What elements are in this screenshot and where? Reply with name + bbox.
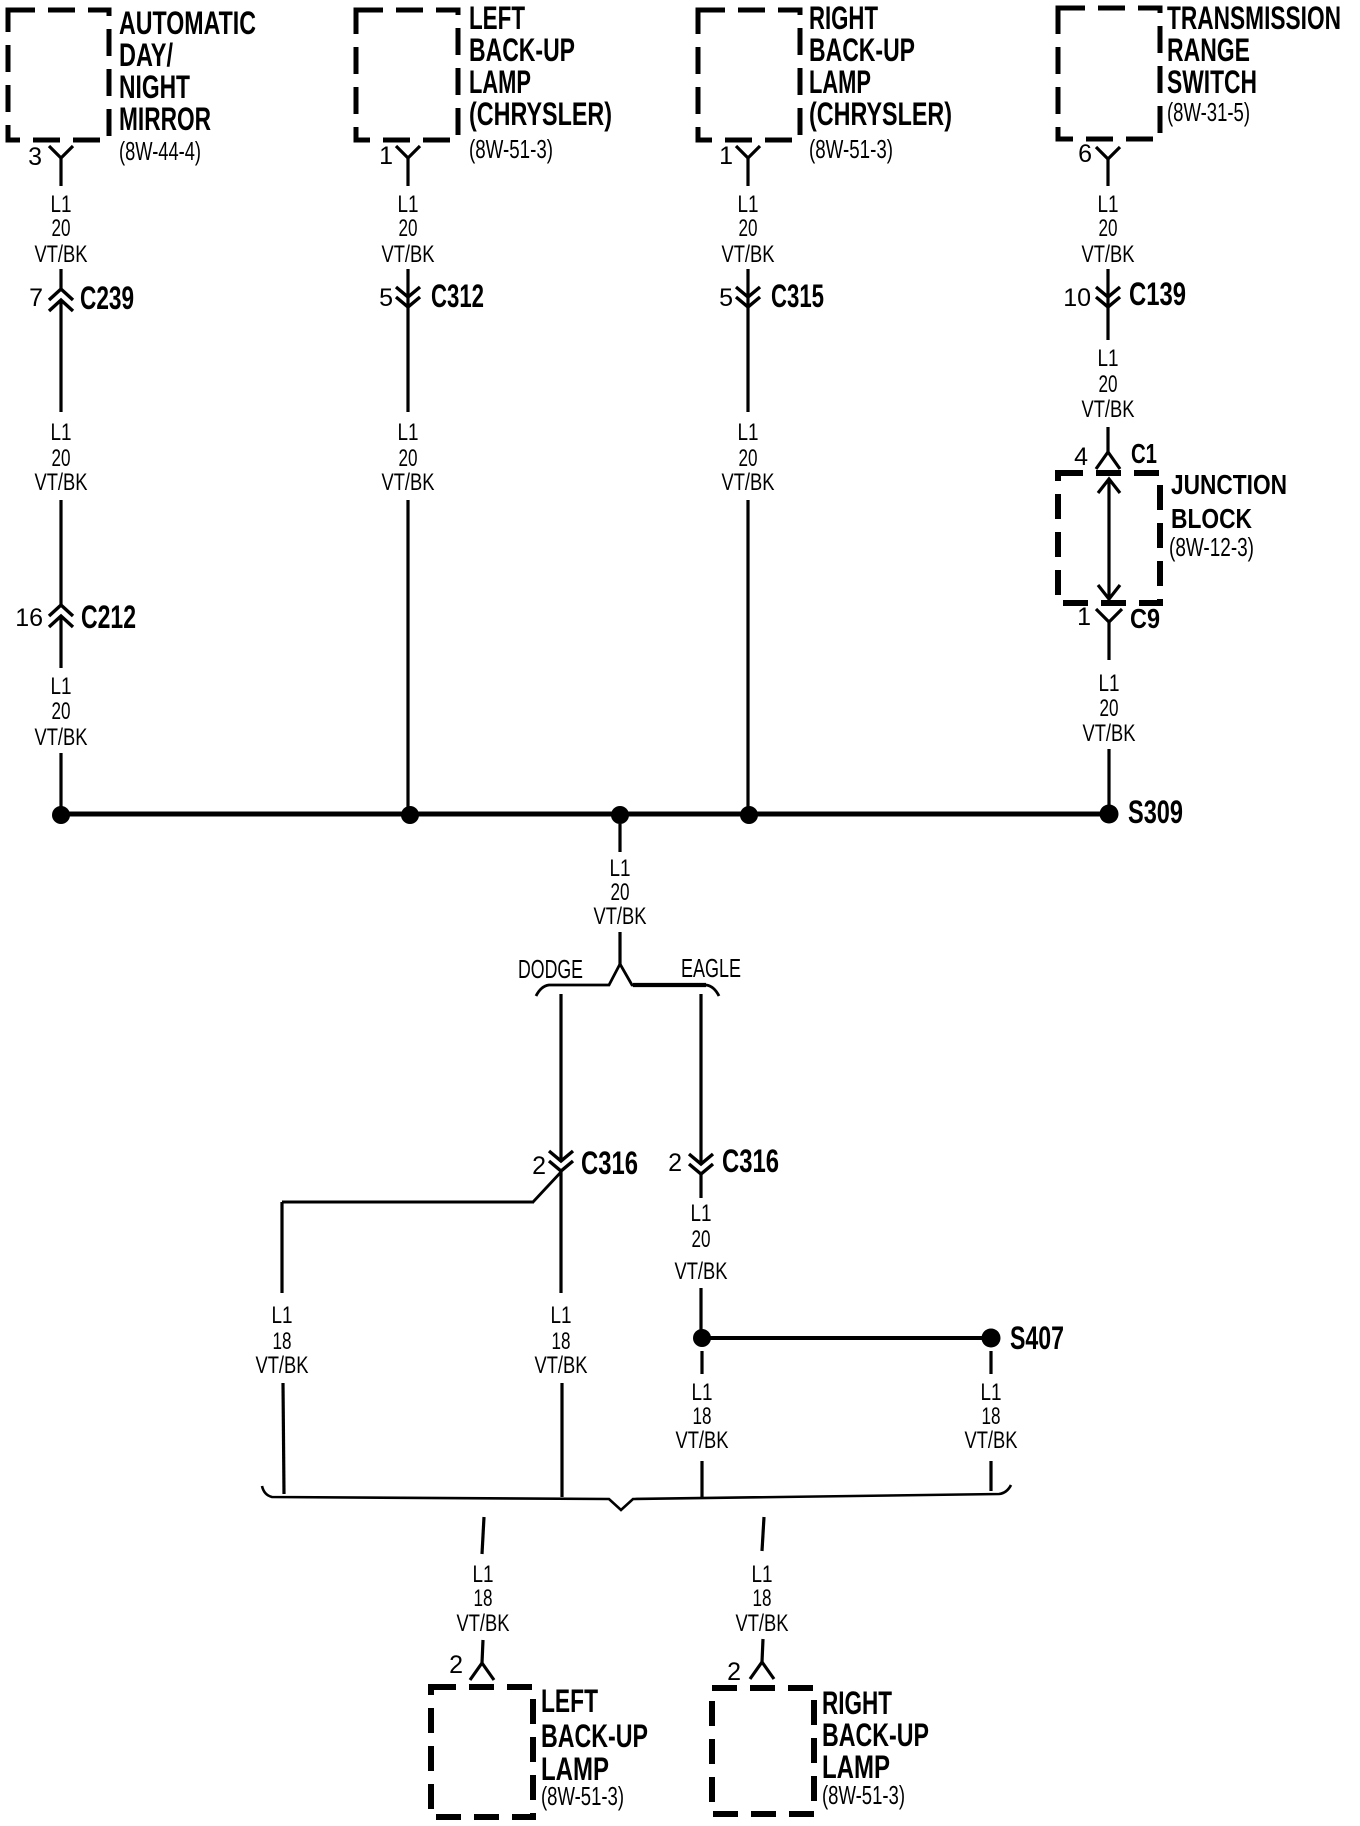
connector pin 2 at left lamp bbox=[449, 1651, 494, 1680]
wire: into C312 bbox=[406, 269, 409, 412]
svg-text:LEFT: LEFT bbox=[541, 1683, 598, 1719]
svg-text:VT/BK: VT/BK bbox=[965, 1427, 1018, 1454]
svg-text:20: 20 bbox=[399, 215, 418, 242]
in-line connector C316 (eagle) pin 2 bbox=[668, 1143, 779, 1179]
svg-text:C1: C1 bbox=[1131, 438, 1157, 469]
svg-text:L1: L1 bbox=[981, 1379, 1002, 1406]
svg-text:C212: C212 bbox=[81, 599, 136, 635]
svg-text:5: 5 bbox=[719, 284, 733, 312]
wire: stub below bus bbox=[618, 824, 621, 852]
svg-text:VT/BK: VT/BK bbox=[722, 469, 775, 496]
brace: DODGE / EAGLE option split bbox=[536, 964, 719, 996]
svg-text:(CHRYSLER): (CHRYSLER) bbox=[809, 96, 952, 132]
svg-text:20: 20 bbox=[52, 698, 71, 725]
svg-text:VT/BK: VT/BK bbox=[675, 1258, 728, 1285]
svg-text:1: 1 bbox=[1077, 603, 1091, 631]
svg-text:L1: L1 bbox=[473, 1561, 494, 1588]
connector C9 pin 1 at junction block bbox=[1077, 603, 1160, 634]
wire: C9 down bbox=[1107, 622, 1110, 660]
svg-text:L1: L1 bbox=[692, 1379, 713, 1406]
svg-text:(CHRYSLER): (CHRYSLER) bbox=[469, 96, 612, 132]
wire: C239 down bbox=[59, 300, 62, 412]
svg-text:AUTOMATIC: AUTOMATIC bbox=[119, 5, 256, 41]
wire: into left lamp pin 2 bbox=[482, 1640, 483, 1663]
svg-text:VT/BK: VT/BK bbox=[1083, 720, 1136, 747]
svg-text:C316: C316 bbox=[581, 1145, 638, 1181]
svg-text:3: 3 bbox=[28, 143, 42, 171]
wire: down to splice S407 bbox=[699, 1288, 702, 1338]
svg-text:VT/BK: VT/BK bbox=[35, 241, 88, 268]
splice S309 bbox=[1100, 794, 1184, 830]
component box: right back-up lamp bbox=[712, 1688, 814, 1814]
connector C1 pin 4 at junction block bbox=[1074, 438, 1157, 471]
svg-text:18: 18 bbox=[474, 1585, 493, 1612]
svg-text:BLOCK: BLOCK bbox=[1171, 503, 1252, 534]
label: right back-up lamp text bbox=[822, 1685, 929, 1810]
svg-text:C139: C139 bbox=[1129, 276, 1186, 312]
svg-text:S407: S407 bbox=[1010, 1320, 1064, 1356]
wire: down to splice S309 bbox=[1107, 749, 1110, 814]
wire: down to C212 bbox=[59, 500, 62, 606]
svg-text:VT/BK: VT/BK bbox=[382, 241, 435, 268]
in-line connector C315 pin 5 bbox=[719, 278, 824, 314]
component box: left back-up lamp (chrysler) bbox=[356, 10, 458, 140]
svg-text:L1: L1 bbox=[51, 673, 72, 700]
svg-text:20: 20 bbox=[1100, 695, 1119, 722]
svg-text:20: 20 bbox=[739, 215, 758, 242]
svg-text:(8W-51-3): (8W-51-3) bbox=[809, 134, 893, 164]
svg-text:2: 2 bbox=[449, 1651, 463, 1679]
wire: splice bus S309 horizontal bbox=[61, 812, 1110, 817]
svg-text:(8W-51-3): (8W-51-3) bbox=[541, 1781, 624, 1811]
splice S407 bbox=[982, 1320, 1065, 1356]
svg-text:BACK-UP: BACK-UP bbox=[822, 1717, 929, 1753]
svg-text:6: 6 bbox=[1078, 140, 1092, 168]
svg-text:RIGHT: RIGHT bbox=[809, 0, 878, 36]
svg-text:L1: L1 bbox=[51, 191, 72, 218]
svg-text:(8W-51-3): (8W-51-3) bbox=[822, 1780, 905, 1810]
svg-text:VT/BK: VT/BK bbox=[382, 469, 435, 496]
svg-text:LAMP: LAMP bbox=[809, 64, 871, 100]
svg-text:VT/BK: VT/BK bbox=[535, 1352, 588, 1379]
svg-text:L1: L1 bbox=[738, 419, 759, 446]
svg-text:C312: C312 bbox=[431, 278, 484, 314]
svg-text:VT/BK: VT/BK bbox=[457, 1610, 510, 1637]
connector pin Y at right lamp pin 1 bbox=[736, 146, 760, 158]
component box: left back-up lamp bbox=[431, 1687, 533, 1817]
svg-text:L1: L1 bbox=[1098, 345, 1119, 372]
label: automatic day/night mirror text bbox=[119, 5, 256, 166]
wire: left lamp pin 1 down bbox=[406, 158, 409, 186]
svg-text:1: 1 bbox=[379, 142, 393, 170]
wire: below C316 eagle bbox=[699, 1174, 702, 1198]
svg-text:VT/BK: VT/BK bbox=[35, 469, 88, 496]
wire: mirror pin 3 down bbox=[59, 158, 62, 186]
svg-text:20: 20 bbox=[52, 445, 71, 472]
svg-text:DAY/: DAY/ bbox=[119, 37, 173, 73]
svg-text:20: 20 bbox=[52, 215, 71, 242]
junction dot col3 bbox=[740, 806, 758, 824]
svg-text:20: 20 bbox=[1099, 371, 1118, 398]
svg-text:LAMP: LAMP bbox=[469, 64, 531, 100]
svg-text:RIGHT: RIGHT bbox=[822, 1685, 892, 1721]
wire: to gather brace right bbox=[989, 1461, 992, 1491]
svg-text:L1: L1 bbox=[1099, 670, 1120, 697]
svg-text:16: 16 bbox=[15, 604, 43, 632]
svg-text:2: 2 bbox=[727, 1658, 741, 1686]
svg-text:L1: L1 bbox=[691, 1200, 712, 1227]
in-line connector C312 pin 5 bbox=[379, 278, 484, 314]
wire: splice S407 horizontal bbox=[702, 1336, 991, 1340]
svg-text:C315: C315 bbox=[771, 278, 824, 314]
svg-text:10: 10 bbox=[1063, 284, 1091, 312]
svg-text:VT/BK: VT/BK bbox=[35, 724, 88, 751]
svg-text:VT/BK: VT/BK bbox=[1082, 241, 1135, 268]
wire: brace down to left lamp bbox=[482, 1517, 484, 1554]
wire: horizontal to left branch bbox=[282, 1201, 534, 1204]
junction dot col1 bbox=[52, 806, 70, 824]
svg-text:LEFT: LEFT bbox=[469, 0, 525, 36]
svg-text:5: 5 bbox=[379, 284, 393, 312]
in-line connector C139 pin 10 bbox=[1063, 276, 1186, 312]
svg-text:(8W-12-3): (8W-12-3) bbox=[1169, 532, 1254, 562]
svg-text:S309: S309 bbox=[1128, 794, 1183, 830]
junction dot at eagle branch bbox=[693, 1329, 711, 1347]
svg-text:L1: L1 bbox=[610, 855, 631, 882]
connector pin 2 at right lamp bbox=[727, 1658, 774, 1686]
component box: junction block bbox=[1058, 473, 1160, 603]
svg-text:2: 2 bbox=[668, 1149, 682, 1177]
wire: feed-through arrow inside junction block bbox=[1098, 479, 1120, 599]
svg-text:20: 20 bbox=[611, 879, 630, 906]
wire: into C239 bbox=[59, 269, 62, 290]
svg-text:20: 20 bbox=[739, 445, 758, 472]
wire: into C139 bbox=[1106, 269, 1109, 340]
wire: left branch down bbox=[280, 1202, 283, 1293]
svg-text:1: 1 bbox=[719, 142, 733, 170]
svg-text:VT/BK: VT/BK bbox=[1082, 396, 1135, 423]
component box: right back-up lamp (chrysler) bbox=[698, 10, 800, 140]
connector pin Y at range switch pin 6 bbox=[1096, 147, 1120, 159]
svg-text:C316: C316 bbox=[722, 1143, 779, 1179]
svg-text:18: 18 bbox=[273, 1328, 292, 1355]
wire: DODGE branch down bbox=[559, 994, 562, 1162]
wire: down to option brace bbox=[618, 932, 621, 966]
label: left back-up lamp text bbox=[541, 1683, 648, 1811]
wire: to gather brace bbox=[700, 1461, 703, 1497]
wire: brace down to right lamp bbox=[762, 1517, 764, 1551]
junction dot mid branch bbox=[611, 806, 629, 824]
svg-text:MIRROR: MIRROR bbox=[119, 101, 211, 137]
in-line connector C316 (dodge) pin 2 bbox=[532, 1145, 638, 1181]
wire: left branch to gather brace bbox=[283, 1383, 284, 1494]
junction dot col2 bbox=[401, 806, 419, 824]
svg-text:NIGHT: NIGHT bbox=[119, 69, 190, 105]
wire: stub below left S407 dot bbox=[700, 1351, 703, 1374]
brace: gather to back-up lamps bbox=[262, 1485, 1011, 1510]
svg-text:(8W-31-5): (8W-31-5) bbox=[1167, 97, 1250, 127]
svg-text:L1: L1 bbox=[272, 1302, 293, 1329]
svg-text:VT/BK: VT/BK bbox=[594, 903, 647, 930]
svg-text:18: 18 bbox=[753, 1585, 772, 1612]
svg-text:BACK-UP: BACK-UP bbox=[541, 1718, 648, 1754]
wire: into C315 bbox=[746, 269, 749, 412]
svg-text:C9: C9 bbox=[1130, 603, 1160, 634]
svg-text:4: 4 bbox=[1074, 443, 1088, 471]
svg-text:L1: L1 bbox=[1098, 191, 1119, 218]
wire: down to splice bus bbox=[59, 753, 62, 814]
svg-text:18: 18 bbox=[982, 1403, 1001, 1430]
svg-text:L1: L1 bbox=[752, 1561, 773, 1588]
svg-text:BACK-UP: BACK-UP bbox=[809, 32, 915, 68]
wire: C212 down bbox=[59, 616, 62, 668]
svg-text:18: 18 bbox=[693, 1403, 712, 1430]
label: junction block text bbox=[1169, 469, 1287, 562]
svg-text:L1: L1 bbox=[398, 419, 419, 446]
svg-text:L1: L1 bbox=[738, 191, 759, 218]
connector pin Y at left lamp pin 1 bbox=[396, 146, 420, 158]
svg-text:RANGE: RANGE bbox=[1167, 32, 1250, 68]
svg-text:2: 2 bbox=[532, 1152, 546, 1180]
svg-text:(8W-44-4): (8W-44-4) bbox=[119, 136, 201, 166]
wire: center branch below C316 bbox=[559, 1171, 562, 1293]
in-line connector C212 pin 16 bbox=[15, 599, 136, 635]
wire: below C316 splice split diagonal bbox=[533, 1172, 561, 1202]
svg-text:VT/BK: VT/BK bbox=[256, 1352, 309, 1379]
component box: transmission range switch bbox=[1058, 8, 1160, 139]
svg-text:20: 20 bbox=[399, 445, 418, 472]
label: transmission range switch text bbox=[1167, 0, 1341, 127]
svg-text:(8W-51-3): (8W-51-3) bbox=[469, 134, 553, 164]
wire: range switch pin 6 down bbox=[1106, 159, 1109, 186]
label: right back-up lamp text bbox=[809, 0, 952, 164]
svg-text:L1: L1 bbox=[398, 191, 419, 218]
wire: stub below right S407 dot bbox=[989, 1351, 992, 1374]
svg-text:L1: L1 bbox=[551, 1302, 572, 1329]
svg-text:DODGE: DODGE bbox=[518, 954, 583, 984]
svg-text:BACK-UP: BACK-UP bbox=[469, 32, 575, 68]
svg-text:7: 7 bbox=[29, 284, 43, 312]
wire: EAGLE branch down bbox=[699, 994, 702, 1165]
wire: col3 down to splice bus bbox=[746, 500, 749, 814]
svg-text:EAGLE: EAGLE bbox=[681, 953, 741, 983]
svg-text:C239: C239 bbox=[80, 280, 134, 316]
wire: down to junction block C1 bbox=[1106, 427, 1109, 453]
component box: automatic day/night mirror bbox=[8, 10, 109, 140]
svg-text:VT/BK: VT/BK bbox=[722, 241, 775, 268]
wire: center branch to gather brace bbox=[560, 1383, 563, 1497]
connector pin Y at mirror pin 3 bbox=[49, 146, 73, 158]
svg-text:L1: L1 bbox=[51, 419, 72, 446]
wire: into right lamp pin 2 bbox=[762, 1639, 763, 1662]
svg-text:20: 20 bbox=[692, 1226, 711, 1253]
label: left back-up lamp text bbox=[469, 0, 612, 164]
svg-text:18: 18 bbox=[552, 1328, 571, 1355]
in-line connector C239 pin 7 bbox=[29, 280, 134, 316]
svg-text:JUNCTION: JUNCTION bbox=[1171, 469, 1287, 500]
wire: col2 down to splice bus bbox=[406, 500, 409, 814]
wire: right lamp pin 1 down bbox=[746, 158, 749, 186]
svg-text:VT/BK: VT/BK bbox=[736, 1610, 789, 1637]
svg-text:VT/BK: VT/BK bbox=[676, 1427, 729, 1454]
svg-text:TRANSMISSION: TRANSMISSION bbox=[1167, 0, 1341, 36]
svg-text:SWITCH: SWITCH bbox=[1167, 64, 1257, 100]
svg-text:20: 20 bbox=[1099, 215, 1118, 242]
